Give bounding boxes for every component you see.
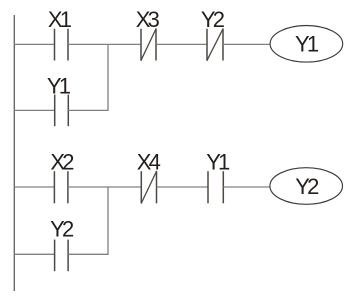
wire rung1: Y2 to coil [223, 43, 270, 45]
label X2 [50, 150, 74, 175]
wire rung2: Y1 to coil [223, 186, 270, 188]
wire branch1: rail to Y1 contact [14, 109, 54, 111]
svg-text:Y1: Y1 [295, 32, 319, 57]
wire branch2: rail to Y2 contact [14, 253, 54, 255]
contact Y2 (NC) [207, 28, 223, 60]
svg-text:X1: X1 [48, 7, 72, 32]
label X3 [136, 7, 160, 32]
left power rail [13, 15, 15, 291]
svg-text:X2: X2 [50, 150, 74, 175]
wire rung1 branch vertical [107, 44, 109, 111]
svg-text:Y2: Y2 [50, 217, 74, 242]
label Y1 (parallel contact) [47, 74, 71, 99]
contact Y1 (parallel NO) [55, 95, 69, 127]
wire branch1: Y1 contact to node [68, 109, 108, 111]
label Y1 (coil) [295, 32, 319, 57]
wire branch2: Y2 contact to node [68, 253, 109, 255]
label X4 [137, 150, 161, 175]
label Y2 (coil) [295, 174, 319, 199]
wire rung2: X2 to X4 [68, 186, 141, 188]
label Y1 (rung2 contact) [206, 150, 230, 175]
contact X1 (NO) [55, 29, 69, 61]
wire rung1: X1 to X3 [68, 43, 141, 45]
coil Y2 [270, 168, 343, 205]
wire rung2: rail to X2 [14, 186, 54, 188]
label X1 [48, 7, 72, 32]
wire rung1: X3 to Y2 [156, 43, 207, 45]
svg-text:X3: X3 [136, 7, 160, 32]
contact X2 (NO) [54, 171, 68, 203]
wire rung1: rail to X1 [14, 43, 54, 45]
svg-text:Y2: Y2 [295, 174, 319, 199]
wire rung2 branch vertical [107, 187, 109, 255]
svg-text:Y1: Y1 [206, 150, 230, 175]
contact X3 (NC) [141, 28, 156, 60]
contact Y2 (parallel NO) [55, 240, 69, 272]
coil Y1 [270, 26, 343, 63]
svg-text:Y1: Y1 [47, 74, 71, 99]
label Y2 (parallel contact) [50, 217, 74, 242]
label Y2 (contact) [201, 7, 225, 32]
contact X4 (NC) [141, 171, 157, 204]
wire rung2: X4 to Y1 [157, 186, 209, 188]
contact Y1 (NO) [208, 171, 223, 203]
svg-text:Y2: Y2 [201, 7, 225, 32]
svg-text:X4: X4 [137, 150, 161, 175]
